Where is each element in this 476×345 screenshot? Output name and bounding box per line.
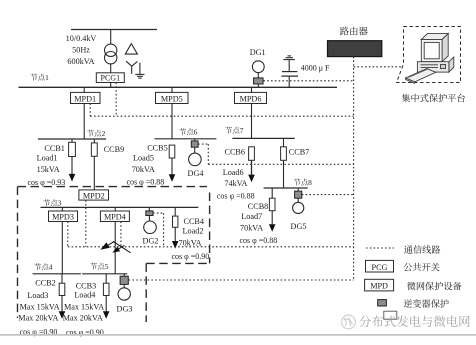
breaker CCB7 bbox=[281, 138, 287, 160]
load 6 feeder with arrow bbox=[248, 160, 255, 182]
generator DG2 bbox=[144, 216, 157, 234]
svg-text:CCB2: CCB2 bbox=[35, 278, 55, 287]
legend hidden fifth box bbox=[384, 311, 397, 319]
comm line: DG3 to trunk bbox=[129, 279, 354, 281]
svg-text:cos φ =0.88: cos φ =0.88 bbox=[240, 236, 278, 245]
comm line: PCG1 to backbone bbox=[115, 83, 117, 117]
watermark logo bbox=[342, 315, 356, 329]
wire: feeder drop to transformer bbox=[110, 30, 112, 45]
svg-text:MPD1: MPD1 bbox=[74, 94, 96, 103]
svg-text:DG5: DG5 bbox=[291, 222, 307, 231]
svg-text:微网保护设备: 微网保护设备 bbox=[407, 278, 462, 292]
node 8 bus bbox=[264, 187, 308, 189]
wire: MPD6 to node-7 bus bbox=[251, 104, 253, 139]
delta winding symbol bbox=[125, 44, 137, 55]
svg-text:MPD: MPD bbox=[370, 282, 388, 291]
svg-text:CCB8: CCB8 bbox=[248, 202, 268, 211]
wire: bus1 to MPD1 bbox=[83, 87, 85, 92]
svg-text:PCG: PCG bbox=[372, 263, 388, 272]
svg-text:路由器: 路由器 bbox=[340, 23, 369, 37]
svg-text:节点8: 节点8 bbox=[293, 177, 312, 188]
computer icon of platform bbox=[406, 34, 454, 84]
legend MPD box bbox=[365, 279, 394, 291]
wire: HV feeder stub bbox=[71, 29, 157, 31]
protection MPD5 bbox=[156, 92, 189, 103]
svg-text:Load6: Load6 bbox=[223, 168, 244, 177]
wire: MPD1 to node-2 bus bbox=[83, 104, 85, 140]
comm line: DG2 elbow bbox=[153, 213, 164, 247]
wire: transformer to PCG1 bbox=[110, 64, 112, 73]
wire: bus3 to MPD4 bbox=[114, 207, 116, 211]
svg-text:15kVA: 15kVA bbox=[37, 165, 60, 174]
protection MPD2 bbox=[79, 190, 109, 201]
svg-text:分布式发电与微电网: 分布式发电与微电网 bbox=[359, 312, 471, 330]
node 3 bus bbox=[41, 206, 199, 208]
comm line: horizontal backbone upper bbox=[90, 115, 353, 117]
wire: MPD3 to node-4 bus bbox=[61, 222, 63, 274]
switch PCG1 bbox=[96, 73, 124, 83]
wire: CCB9 to MPD2 bbox=[93, 156, 95, 190]
svg-text:节点5: 节点5 bbox=[90, 261, 109, 272]
generator DG3 bbox=[118, 284, 130, 300]
svg-text:MPD4: MPD4 bbox=[104, 213, 126, 222]
svg-text:通信线路: 通信线路 bbox=[404, 242, 441, 256]
comm line: router trunk vertical bbox=[353, 57, 355, 280]
node 2 bus bbox=[38, 138, 106, 140]
transformer T1 (two overlapping circles) bbox=[105, 44, 117, 64]
breaker CCB3 bbox=[103, 274, 109, 296]
breaker CCB2 bbox=[59, 274, 65, 296]
generator DG1 bbox=[252, 61, 264, 73]
wire: bus1 to MPD5 bbox=[171, 87, 173, 92]
node 7 bus bbox=[232, 137, 294, 139]
svg-text:CCB4: CCB4 bbox=[184, 217, 204, 226]
node 4 bus bbox=[33, 273, 81, 275]
svg-text:Load1: Load1 bbox=[37, 153, 58, 162]
wire: DG1 to inverter protection bbox=[257, 73, 259, 78]
router box bbox=[328, 41, 382, 57]
svg-text:CCB9: CCB9 bbox=[104, 145, 124, 154]
svg-text:DG1: DG1 bbox=[250, 48, 266, 57]
breaker CCB9 bbox=[91, 139, 97, 156]
svg-text:节点7: 节点7 bbox=[225, 125, 244, 136]
protection MPD3 bbox=[49, 211, 78, 222]
svg-text:cos φ =0.88: cos φ =0.88 bbox=[217, 192, 255, 201]
capacitor 4000uF bbox=[281, 72, 298, 77]
watermark baseline rule bbox=[0, 334, 476, 336]
svg-text:节点4: 节点4 bbox=[34, 262, 53, 273]
load 1 feeder with arrow bbox=[69, 157, 76, 182]
protection MPD6 bbox=[235, 92, 267, 103]
svg-text:集中式保护平台: 集中式保护平台 bbox=[401, 91, 465, 105]
breaker CCB8 bbox=[269, 188, 275, 211]
svg-text:MPD2: MPD2 bbox=[83, 191, 105, 200]
load 7 feeder with arrow bbox=[269, 211, 276, 232]
wire: PCG1 to node-1 bus bbox=[110, 83, 112, 88]
node 5 bus bbox=[82, 273, 127, 275]
protection MPD1 bbox=[71, 92, 101, 103]
svg-text:MPD6: MPD6 bbox=[240, 94, 262, 103]
svg-text:50Hz: 50Hz bbox=[72, 46, 90, 55]
svg-text:MPD5: MPD5 bbox=[161, 94, 183, 103]
node 6 bus bbox=[154, 138, 216, 140]
svg-text:CCB6: CCB6 bbox=[225, 147, 245, 156]
legend comm line sample bbox=[366, 247, 394, 249]
generator DG4 bbox=[189, 147, 202, 166]
load 2 feeder with arrow bbox=[172, 227, 179, 248]
svg-text:cos φ =0.88: cos φ =0.88 bbox=[127, 178, 165, 187]
wire: CCB7 to node-8 bus bbox=[283, 160, 285, 188]
svg-text:DG3: DG3 bbox=[117, 305, 133, 314]
svg-text:公共开关: 公共开关 bbox=[403, 259, 440, 273]
load 5 feeder with arrow bbox=[169, 158, 176, 182]
load 3 feeder with arrow bbox=[59, 296, 66, 319]
svg-text:70kVA: 70kVA bbox=[240, 224, 263, 233]
inverter protection of DG4 bbox=[191, 139, 198, 147]
inverter protection of DG2 bbox=[146, 207, 153, 215]
wire: MPD5 to node-6 bus bbox=[171, 104, 173, 139]
breaker CCB4 bbox=[173, 207, 178, 227]
svg-text:cos φ =0.90: cos φ =0.90 bbox=[172, 252, 210, 261]
svg-text:600kVA: 600kVA bbox=[67, 57, 94, 66]
breaker CCB6 bbox=[249, 147, 255, 161]
fault symbol on MPD4 feeder bbox=[100, 241, 130, 253]
wire: bus3 to MPD3 bbox=[61, 207, 63, 211]
svg-text:4000 μ F: 4000 μ F bbox=[301, 64, 330, 73]
svg-text:CCB5: CCB5 bbox=[147, 143, 167, 152]
comm line: MPD4 drop bbox=[120, 222, 122, 247]
wire: DG1 protection to bus1 bbox=[257, 84, 259, 87]
wye winding symbol with grounded neutral bbox=[126, 61, 144, 78]
svg-text:逆变器保护: 逆变器保护 bbox=[403, 296, 449, 310]
svg-text:节点6: 节点6 bbox=[179, 126, 198, 137]
svg-text:Max 15kVA: Max 15kVA bbox=[20, 303, 60, 312]
comm line: MPD2 drop bbox=[85, 200, 87, 247]
wire: ground to capacitor bbox=[288, 60, 290, 72]
svg-text:MPD3: MPD3 bbox=[52, 213, 74, 222]
comm line: DG4 horizontal to trunk bbox=[208, 163, 353, 165]
inverter protection of DG1 bbox=[254, 78, 263, 84]
svg-text:Load5: Load5 bbox=[133, 154, 154, 163]
load 4 feeder with arrow bbox=[103, 296, 110, 319]
svg-text:PCG1: PCG1 bbox=[101, 74, 121, 83]
svg-text:Max 20kVA: Max 20kVA bbox=[63, 314, 103, 323]
svg-text:10/0.4kV: 10/0.4kV bbox=[66, 34, 97, 43]
comm line: MPD3 drop bbox=[67, 222, 69, 247]
inverter protection of DG5 bbox=[295, 188, 302, 198]
svg-text:cos φ =0.93: cos φ =0.93 bbox=[28, 178, 66, 187]
breaker CCB1 bbox=[69, 139, 76, 157]
generator DG5 bbox=[293, 198, 304, 213]
svg-text:Max 15kVA: Max 15kVA bbox=[64, 303, 104, 312]
comm line: router to platform bbox=[354, 66, 402, 68]
svg-text:Max 20kVA: Max 20kVA bbox=[18, 314, 58, 323]
wire: capacitor to bus1 bbox=[288, 76, 290, 87]
svg-text:节点2: 节点2 bbox=[87, 128, 106, 139]
svg-text:节点3: 节点3 bbox=[43, 197, 62, 208]
svg-text:CCB7: CCB7 bbox=[289, 147, 309, 156]
wire: MPD4 to node-5 bus bbox=[114, 222, 116, 274]
transformer rating label 10/0.4kV 50Hz 600kVA bbox=[66, 34, 97, 66]
svg-text:DG4: DG4 bbox=[188, 169, 204, 178]
legend PCG box bbox=[366, 260, 394, 272]
inverter protection of DG3 bbox=[120, 274, 128, 285]
svg-text:Load7: Load7 bbox=[241, 212, 262, 221]
comm line: DG5 to trunk bbox=[302, 194, 354, 196]
svg-text:Load2: Load2 bbox=[183, 227, 204, 236]
svg-text:DG2: DG2 bbox=[143, 236, 159, 245]
comm line: DG4 elbow bbox=[198, 144, 208, 164]
node 1 bus bbox=[19, 86, 338, 88]
ground above capacitor bbox=[283, 56, 295, 60]
wire: bus1 to MPD6 bbox=[251, 87, 253, 92]
svg-text:CCB1: CCB1 bbox=[44, 144, 64, 153]
breaker CCB5 bbox=[169, 145, 175, 158]
svg-text:Load3: Load3 bbox=[27, 291, 48, 300]
comm line: horizontal backbone lower bbox=[68, 246, 354, 248]
comm line: DG1 to backbone bbox=[263, 80, 353, 82]
centralized protection platform dashed frame bbox=[397, 27, 461, 83]
svg-text:CCB3: CCB3 bbox=[76, 282, 96, 291]
svg-text:节点1: 节点1 bbox=[30, 72, 49, 83]
svg-text:Load4: Load4 bbox=[74, 290, 95, 299]
protection MPD4 bbox=[100, 211, 129, 222]
svg-text:74kVA: 74kVA bbox=[224, 179, 247, 188]
microgrid dashed boundary bbox=[18, 187, 210, 322]
svg-text:70kVA: 70kVA bbox=[132, 165, 155, 174]
legend inverter protection square bbox=[378, 300, 387, 306]
comm line: MPD1 drop bbox=[89, 104, 91, 117]
